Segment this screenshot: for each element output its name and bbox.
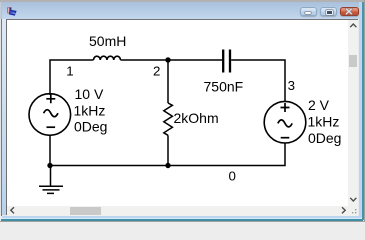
svg-text:10 V: 10 V [75, 86, 104, 102]
svg-text:0Deg: 0Deg [74, 119, 107, 135]
wire: resistor bottom to bottom wire [167, 135, 169, 165]
svg-text:0Deg: 0Deg [308, 130, 341, 146]
svg-text:750nF: 750nF [204, 79, 244, 95]
wire: node2 down to resistor [167, 60, 169, 103]
white schematic canvas [7, 20, 348, 206]
junction dot at V1/bottom wire [47, 163, 52, 168]
vertical scrollbar [348, 20, 358, 206]
junction dot at resistor/bottom wire [165, 163, 170, 168]
V2 plus sign [281, 103, 290, 112]
svg-text:1: 1 [66, 64, 73, 79]
svg-text:2: 2 [153, 64, 160, 79]
V2 minus sign [281, 137, 290, 139]
resistor R1 zigzag [164, 103, 173, 135]
svg-text:50mH: 50mH [89, 33, 126, 49]
svg-text:2kOhm: 2kOhm [174, 110, 219, 126]
node 2 junction dot [165, 57, 170, 62]
svg-text:2 V: 2 V [308, 97, 330, 113]
window outer top gray edge [0, 0, 365, 2]
svg-text:1kHz: 1kHz [74, 103, 106, 119]
svg-text:1kHz: 1kHz [308, 114, 340, 130]
wire: capacitor to right branch top corner [231, 60, 285, 102]
wire: V1 bottom to ground junction [49, 135, 51, 165]
maximize button [320, 7, 338, 17]
ground symbol [39, 166, 63, 194]
right frame [358, 19, 359, 216]
ac source V1 circle [29, 94, 71, 136]
title bar bottom dark line [6, 19, 359, 20]
capacitor C1 plates [223, 50, 230, 73]
minimize button [300, 7, 318, 17]
wire: V2 bottom down and bottom wire across to V1 branch [50, 143, 285, 166]
ac source V2 circle [264, 101, 306, 143]
wire: inductor to capacitor [121, 59, 223, 61]
inductor L1 coil [94, 56, 121, 60]
V1 plus sign [46, 94, 55, 103]
circuit schematic svg [7, 20, 348, 206]
V2 sine wave [278, 120, 292, 127]
V1 minus sign [47, 126, 56, 128]
svg-text:3: 3 [288, 78, 295, 93]
title bar gradient [2, 2, 363, 19]
left frame [0, 19, 1, 216]
horizontal scrollbar [7, 206, 348, 216]
app icon in title bar [7, 7, 17, 16]
scrollbar corner + resize grip [348, 206, 358, 216]
bottom frame [2, 215, 359, 216]
V1 sine wave [44, 110, 58, 117]
wire: top-left corner from V1 up and across to inductor [50, 60, 94, 95]
svg-text:0: 0 [229, 169, 236, 184]
close button [340, 7, 359, 17]
